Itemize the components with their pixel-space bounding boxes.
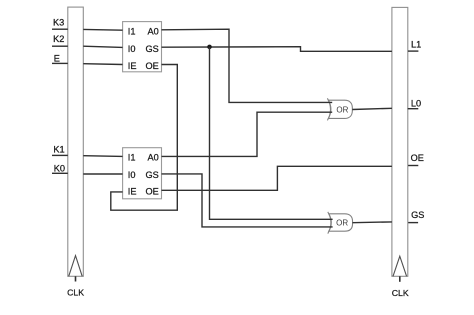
clock stub (left bus)	[75, 276, 77, 281]
wire OR2 output to GS	[353, 221, 392, 224]
wire U2.A0 to OR1 input B	[162, 112, 333, 156]
label CLK (right)	[392, 288, 409, 298]
or-gate OR1 (L0)	[327, 98, 352, 120]
or-gate OR2 (GS)	[328, 212, 353, 234]
port K3	[52, 18, 68, 30]
wire U2.OE to OE port	[162, 166, 392, 190]
svg-text:I1: I1	[128, 153, 136, 163]
svg-text:K3: K3	[53, 18, 64, 28]
svg-text:CLK: CLK	[67, 288, 84, 298]
svg-text:IE: IE	[128, 61, 137, 71]
svg-text:K0: K0	[54, 163, 65, 173]
svg-text:I1: I1	[128, 26, 136, 36]
wire U2.GS to OR2 input B	[162, 174, 333, 227]
wire GS1 junction to OR2 input A	[210, 47, 333, 219]
svg-text:L1: L1	[411, 39, 421, 49]
svg-text:GS: GS	[411, 210, 424, 220]
input bus bar (left register)	[68, 7, 84, 276]
output bus bar (right register)	[392, 7, 408, 276]
svg-text:L0: L0	[411, 99, 421, 109]
svg-text:OE: OE	[146, 187, 159, 197]
clock triangle (left bus)	[69, 256, 83, 277]
svg-text:GS: GS	[146, 170, 159, 180]
priority encoder U1 (upper block)	[123, 22, 162, 72]
wire K2 to U1.I0	[83, 46, 122, 47]
svg-text:A0: A0	[148, 26, 159, 36]
svg-text:OE: OE	[411, 153, 424, 163]
port L1	[408, 39, 421, 51]
port OE	[408, 153, 424, 166]
svg-text:K1: K1	[53, 145, 64, 155]
wire U1.OE to U2.IE (cascade loop)	[111, 65, 178, 211]
svg-text:K2: K2	[53, 34, 64, 44]
junction node GS1	[207, 45, 212, 50]
wire E to U1.IE	[83, 63, 122, 66]
port K2	[52, 34, 68, 46]
port E	[52, 54, 68, 64]
priority encoder U2 (lower block)	[123, 148, 162, 199]
wire U1.A0 to OR1 input A	[162, 29, 333, 102]
wire K0 to U2.I0	[83, 173, 122, 175]
wire OR1 output to L0	[352, 108, 392, 109]
clock stub (right bus)	[399, 276, 401, 282]
svg-text:I0: I0	[128, 44, 136, 54]
svg-text:CLK: CLK	[392, 288, 409, 298]
svg-text:I0: I0	[128, 170, 136, 180]
svg-text:A0: A0	[148, 153, 159, 163]
wire U1.GS to L1 (with jog)	[162, 47, 392, 52]
svg-text:IE: IE	[128, 187, 137, 197]
svg-text:OE: OE	[146, 61, 159, 71]
label CLK (left)	[67, 288, 84, 298]
port K1	[52, 145, 68, 156]
wire K1 to U2.I1	[83, 155, 122, 158]
port GS	[408, 210, 424, 223]
port K0	[52, 163, 68, 173]
clock triangle (right bus)	[393, 256, 407, 276]
svg-text:OR: OR	[336, 218, 348, 227]
svg-text:GS: GS	[146, 44, 159, 54]
port L0	[408, 99, 421, 109]
svg-text:OR: OR	[336, 106, 348, 115]
svg-text:E: E	[54, 54, 60, 64]
wire K3 to U1.I1	[83, 28, 122, 31]
